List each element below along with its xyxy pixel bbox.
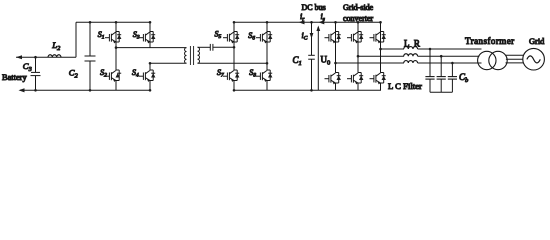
transistor S7: [223, 46, 239, 92]
wire bridge2 + converter bottom rail: [233, 89, 381, 91]
wire bridge1 to transformer bottom: [150, 62, 187, 64]
svg-text:L2: L2: [51, 40, 61, 52]
transformer T1 secondary winding: [198, 47, 200, 63]
wire phase A to transformer: [418, 62, 482, 64]
grid AC sine: [527, 56, 540, 63]
transistor S5: [223, 21, 239, 47]
svg-text:Grid-side: Grid-side: [343, 3, 374, 12]
svg-text:S2: S2: [100, 68, 107, 79]
svg-text:Grid: Grid: [529, 37, 545, 46]
capacitor filter 1: [425, 48, 434, 92]
transformer grid circle2: [489, 51, 507, 69]
transistor S6: [256, 21, 272, 63]
wire riser to bridge1 top rail: [75, 22, 77, 57]
wire secondary top to capacitor: [198, 46, 211, 48]
svg-text:Transformer: Transformer: [465, 36, 515, 46]
transistor S4: [139, 62, 155, 90]
capacitor filter 2: [437, 55, 446, 92]
svg-text:iC: iC: [302, 31, 308, 42]
svg-text:S3: S3: [133, 30, 140, 41]
svg-text:C2: C2: [69, 68, 79, 80]
wire battery top: [16, 56, 76, 58]
svg-text:C1: C1: [293, 55, 302, 67]
wire bridge2 + DC bus top rail: [234, 21, 381, 23]
current iC arrow: [310, 33, 314, 39]
capacitor series blocking: [210, 44, 213, 51]
svg-text:U0: U0: [321, 55, 331, 67]
inductor L phase B: [404, 54, 418, 56]
svg-text:is: is: [321, 12, 325, 23]
wire transformer to grid middle: [506, 58, 523, 60]
capacitor C3: [31, 56, 41, 92]
wire filter star bus: [430, 91, 452, 93]
transistor Q3 top (converter leg3): [370, 21, 386, 49]
svg-text:S1: S1: [98, 30, 105, 41]
capacitor filter 3: [448, 62, 457, 92]
transformer T1 primary winding: [185, 48, 187, 64]
capacitor C2: [85, 21, 96, 92]
svg-text:S6: S6: [248, 31, 255, 42]
svg-text:S5: S5: [215, 30, 222, 41]
svg-text:S8: S8: [249, 68, 256, 79]
transistor S2: [105, 46, 121, 90]
transistor S8: [256, 62, 272, 90]
transistor Q1 top (converter leg1): [325, 21, 341, 63]
wire bridge1 top rail: [76, 21, 150, 23]
current ir arrow: [299, 20, 305, 24]
svg-text:C3: C3: [23, 61, 32, 73]
wire bottom rail left arrow: [19, 88, 25, 92]
transistor Q3 bottom: [370, 48, 386, 91]
inductor L phase C: [404, 47, 418, 49]
wire phase B (middle): [358, 55, 404, 57]
wire battery top arrow: [16, 55, 22, 59]
wire transformer to grid bottom: [506, 62, 524, 64]
svg-text:S7: S7: [217, 68, 224, 79]
wire bridge1 to transformer top: [116, 47, 187, 49]
transistor Q2 top (converter leg2): [347, 21, 363, 56]
svg-text:DC bus: DC bus: [302, 3, 326, 12]
transistor S3: [139, 21, 155, 48]
transistor Q1 bottom: [325, 62, 341, 91]
inductor L2: [48, 55, 61, 57]
wire capacitor to bridge2 leg1: [213, 46, 234, 48]
wire phase C to transformer: [418, 48, 482, 50]
wire phase A (bottom): [336, 62, 405, 64]
transistor Q2 bottom: [347, 55, 363, 90]
voltage U0 arrow: [316, 26, 320, 91]
grid AC source circle: [523, 48, 545, 70]
transformer T1 core: [189, 46, 191, 65]
current is arrow: [318, 20, 324, 24]
wire transformer to grid top: [506, 54, 524, 56]
wire bridge1 bottom rail: [20, 89, 150, 91]
svg-text:L C Filter: L C Filter: [388, 81, 422, 91]
wire phase B to transformer: [418, 55, 480, 57]
svg-text:S4: S4: [132, 68, 139, 79]
svg-text:Battery: Battery: [2, 73, 27, 82]
wire phase C (top): [381, 48, 405, 50]
transformer grid circle1: [478, 51, 496, 69]
svg-text:Cb: Cb: [459, 72, 469, 84]
inductor L phase A: [404, 61, 418, 63]
svg-text:L R: L R: [404, 39, 421, 49]
transistor S1 (IGBT with diode): [105, 21, 121, 48]
wire secondary bottom to bridge2 leg2: [198, 62, 268, 64]
capacitor C1: [308, 21, 315, 92]
